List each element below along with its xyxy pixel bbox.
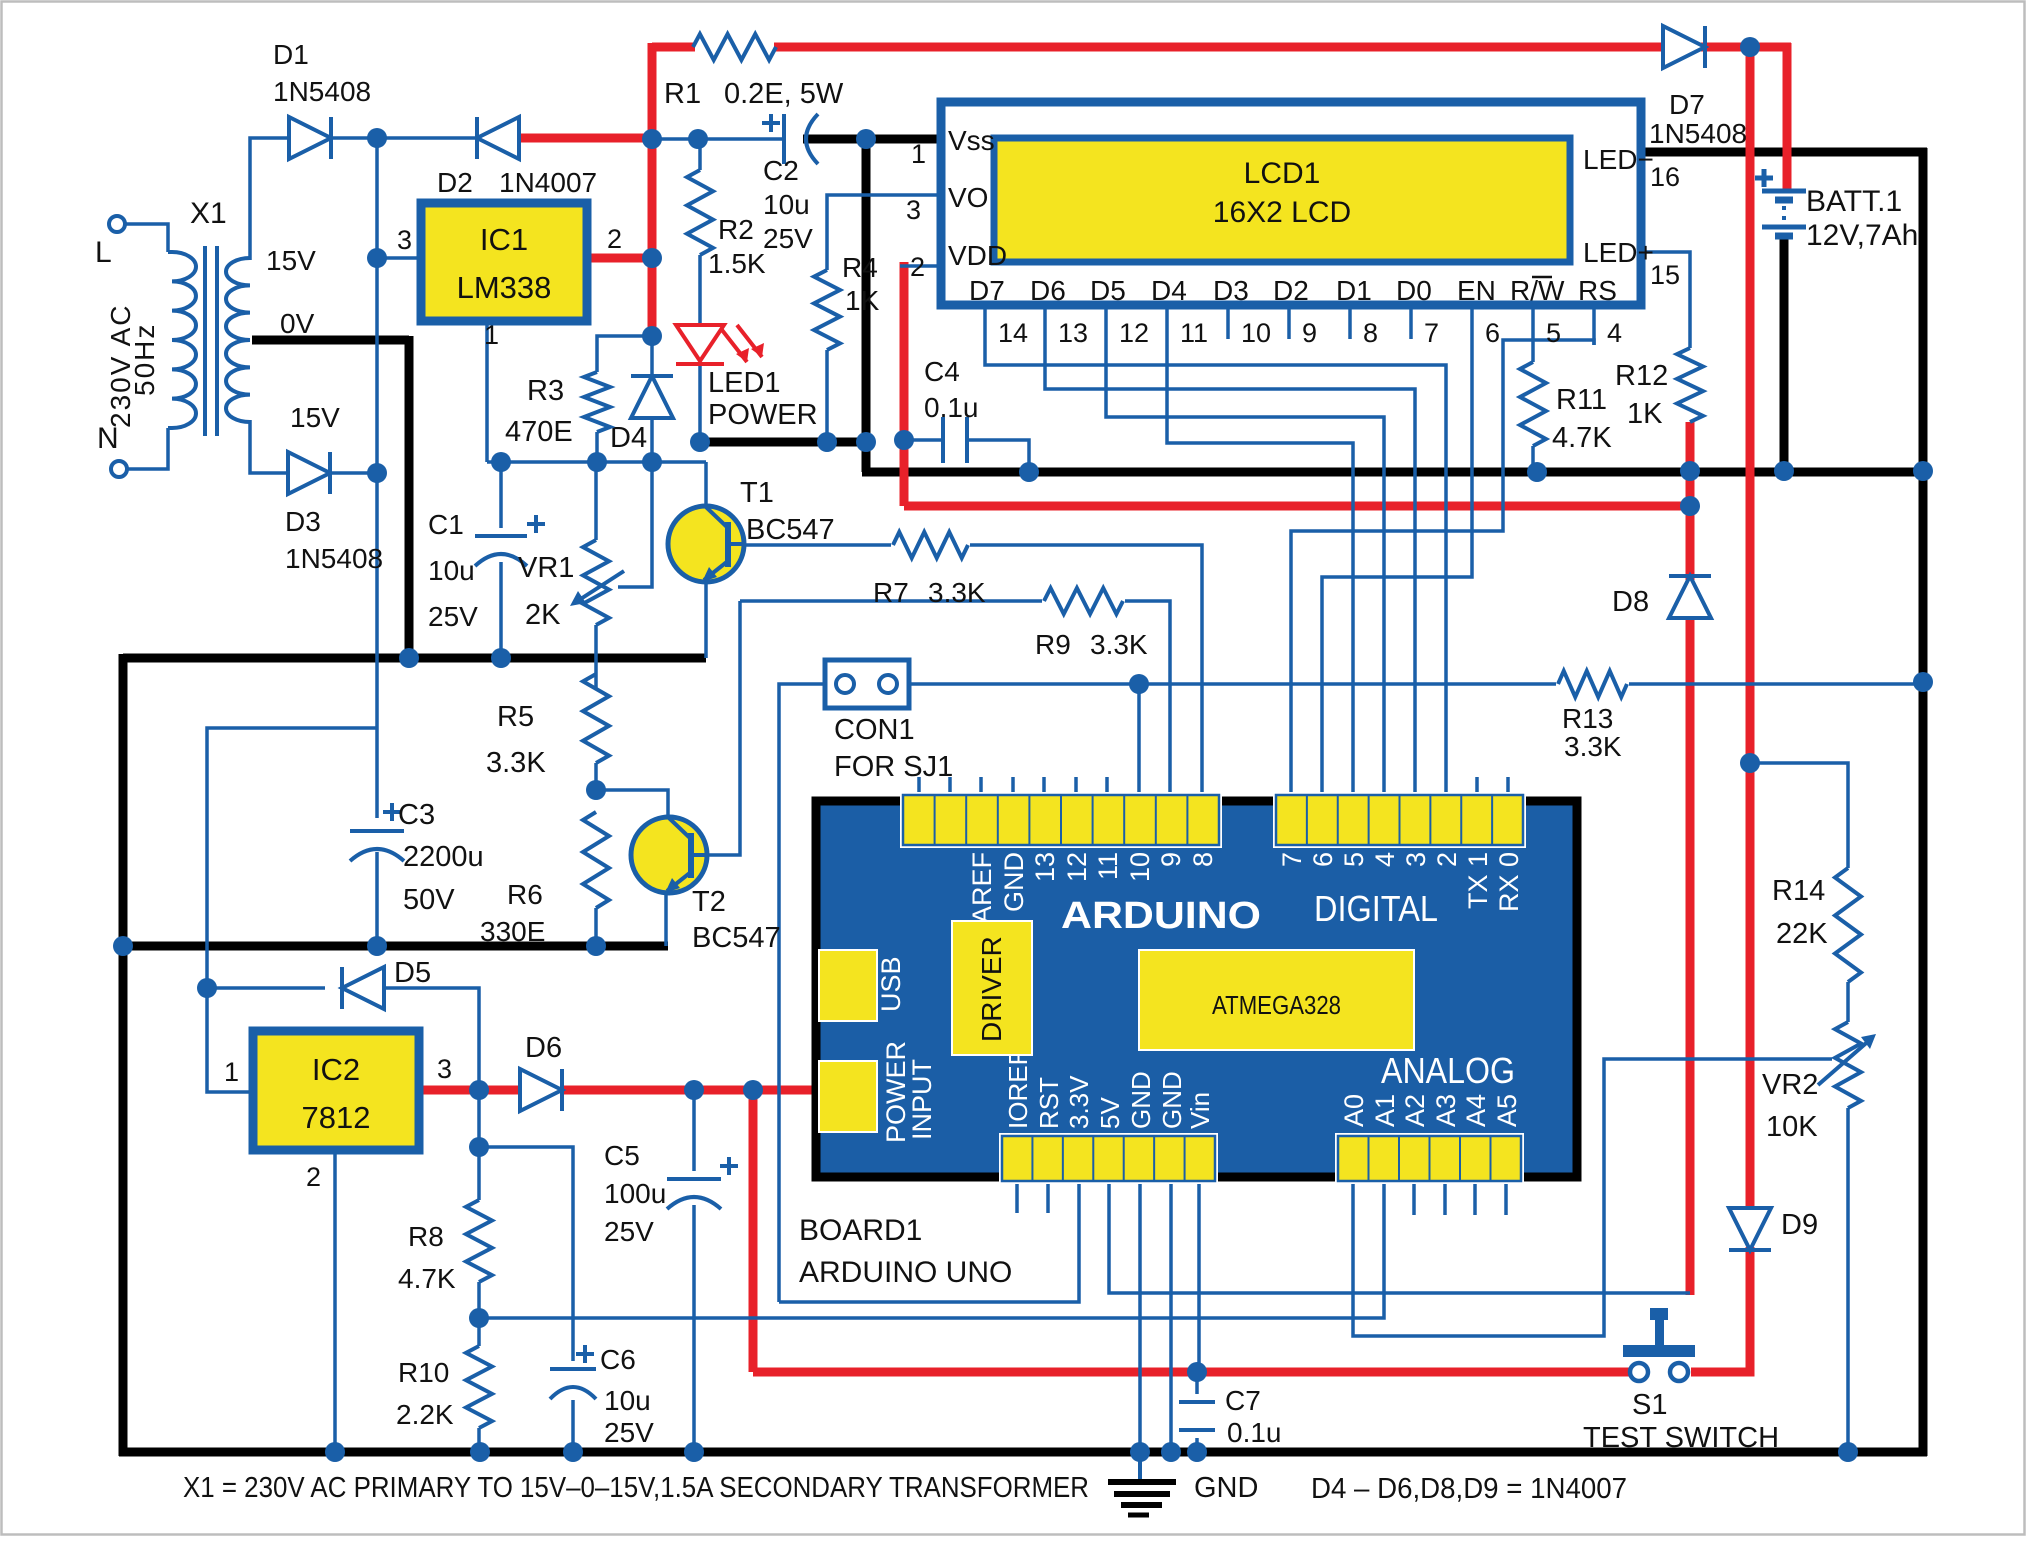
svg-text:50V: 50V xyxy=(403,884,455,916)
wire red battery charge line xyxy=(1746,43,1755,1215)
wire D3 out xyxy=(327,471,377,475)
wire red IC2 out xyxy=(423,1086,528,1095)
label T2 xyxy=(692,886,781,954)
wire R9 to pin9 xyxy=(1125,601,1170,777)
svg-text:X1: X1 xyxy=(190,197,227,230)
svg-text:25V: 25V xyxy=(604,1216,654,1247)
wire CON1 to R13 xyxy=(907,682,1556,686)
diode D9 xyxy=(1729,1208,1771,1250)
LCD1 pin numbers bottom xyxy=(998,318,1622,348)
LCD1 title xyxy=(1213,157,1351,229)
wire R14-VR2 link xyxy=(1846,982,1850,1022)
svg-text:R2: R2 xyxy=(718,214,754,245)
wire R6 bottom xyxy=(594,908,598,946)
note transformer xyxy=(183,1472,1089,1504)
LCD1 right labels xyxy=(1583,144,1654,268)
svg-text:LCD1: LCD1 xyxy=(1244,157,1321,190)
label R5 xyxy=(486,701,546,779)
svg-text:R6: R6 xyxy=(507,879,543,910)
label 15V top xyxy=(266,245,316,276)
svg-text:1: 1 xyxy=(224,1057,239,1087)
note diodes xyxy=(1311,1473,1627,1505)
svg-text:5V: 5V xyxy=(1095,1097,1125,1129)
wire DC to IC2 input xyxy=(207,728,377,1092)
wire C7 top xyxy=(1195,1372,1199,1394)
wire 0V tap black xyxy=(252,336,409,345)
label R13 xyxy=(1562,703,1622,762)
svg-text:VR2: VR2 xyxy=(1762,1069,1818,1101)
svg-text:7: 7 xyxy=(1277,852,1307,867)
svg-text:2: 2 xyxy=(1432,852,1462,867)
capacitor C5 xyxy=(667,1157,738,1209)
svg-text:IC2: IC2 xyxy=(312,1052,360,1087)
svg-text:2: 2 xyxy=(306,1162,321,1192)
label R2 xyxy=(708,214,766,279)
svg-text:7812: 7812 xyxy=(302,1100,371,1135)
wire IC1 pin1 xyxy=(485,325,489,462)
label R6 xyxy=(480,879,545,947)
label S1 xyxy=(1583,1389,1779,1454)
ground GND xyxy=(1108,1452,1258,1515)
svg-text:R3: R3 xyxy=(527,375,564,407)
label R7 xyxy=(873,577,986,608)
wire red R1 riser xyxy=(648,43,657,340)
svg-text:9: 9 xyxy=(1156,852,1186,867)
svg-text:22K: 22K xyxy=(1776,918,1828,950)
svg-text:2: 2 xyxy=(910,252,925,282)
svg-text:3.3K: 3.3K xyxy=(1090,629,1148,660)
wire D1 to D2 xyxy=(329,136,481,140)
wire red top rail left xyxy=(652,43,695,52)
transformer X1 primary coil xyxy=(168,252,196,428)
wire C4 left xyxy=(904,438,943,442)
wire R8-C6 link xyxy=(479,1147,573,1361)
svg-text:1: 1 xyxy=(911,139,926,169)
svg-text:DRIVER: DRIVER xyxy=(976,936,1007,1042)
svg-text:2K: 2K xyxy=(525,599,561,631)
wire LCD pin13 to arduino 3 xyxy=(1045,345,1415,777)
label D7 xyxy=(1649,89,1747,149)
svg-text:T2: T2 xyxy=(692,886,726,918)
svg-text:4.7K: 4.7K xyxy=(1552,422,1612,454)
wire C2 branch xyxy=(652,137,784,141)
svg-text:R11: R11 xyxy=(1556,384,1607,416)
wire black LED- top xyxy=(1641,148,1927,157)
svg-text:ARDUINO UNO: ARDUINO UNO xyxy=(799,1256,1012,1289)
label D4 xyxy=(610,422,647,454)
label R10 xyxy=(396,1357,454,1430)
wire R5R6 node to T2 collector xyxy=(596,790,668,819)
svg-text:0.1u: 0.1u xyxy=(1227,1417,1282,1448)
svg-text:BATT.1: BATT.1 xyxy=(1806,185,1902,218)
svg-text:VDD: VDD xyxy=(948,240,1007,271)
svg-text:D2: D2 xyxy=(437,167,473,198)
wire rectified DC vertical xyxy=(375,138,379,475)
switch S1 xyxy=(1623,1308,1695,1381)
svg-text:25V: 25V xyxy=(428,601,478,632)
wire black bottom rail xyxy=(119,1448,1927,1457)
wire A1 sense line xyxy=(479,1181,1384,1318)
svg-text:0.2E, 5W: 0.2E, 5W xyxy=(724,78,844,110)
svg-text:R13: R13 xyxy=(1562,703,1613,734)
resistor R6 xyxy=(583,812,609,908)
IC2 text xyxy=(302,1052,371,1135)
svg-text:3.3K: 3.3K xyxy=(928,577,986,608)
wire C5 bottom xyxy=(692,1205,696,1452)
svg-text:RX 0: RX 0 xyxy=(1494,852,1524,912)
svg-text:R5: R5 xyxy=(497,701,534,733)
transformer X1 secondary coil xyxy=(226,258,250,422)
wire R7 to pin8 xyxy=(970,545,1202,777)
label D1 xyxy=(273,39,371,107)
wire LCD pin14 to arduino 2 xyxy=(985,345,1446,777)
arduino power header stubs xyxy=(1017,1181,1506,1215)
arduino digital labels left xyxy=(967,852,1218,924)
svg-text:2200u: 2200u xyxy=(403,841,484,873)
svg-text:AREF: AREF xyxy=(967,852,997,924)
wire VR2 bottom xyxy=(1846,1108,1850,1452)
svg-text:D6: D6 xyxy=(1030,275,1066,306)
label D8 xyxy=(1612,586,1649,618)
svg-text:ARDUINO: ARDUINO xyxy=(1061,895,1261,937)
svg-text:USB: USB xyxy=(876,956,906,1012)
svg-text:LM338: LM338 xyxy=(457,270,552,305)
LED LED1 xyxy=(676,325,764,364)
wire red D7 to battery xyxy=(1701,43,1791,52)
svg-text:RS: RS xyxy=(1578,275,1617,306)
wire CON1 left riser xyxy=(779,684,825,1302)
diode D8 xyxy=(1669,576,1711,618)
resistor R7 xyxy=(893,532,968,558)
svg-text:12V,7Ah: 12V,7Ah xyxy=(1806,219,1918,252)
svg-text:POWER: POWER xyxy=(708,399,818,431)
wire LCD pin5 to R11 xyxy=(1531,345,1535,362)
resistor R8 xyxy=(466,1200,492,1282)
svg-text:C7: C7 xyxy=(1225,1385,1261,1416)
resistor R5 xyxy=(583,674,609,763)
label R9 xyxy=(1035,629,1148,660)
diode D7 xyxy=(1663,26,1705,68)
wire red D8 to 5V xyxy=(1686,614,1695,1295)
wire LCD pin12 to arduino 4 xyxy=(1106,345,1384,777)
svg-text:10K: 10K xyxy=(1766,1111,1818,1143)
wire black mid rail xyxy=(862,468,1927,477)
diode D6 xyxy=(520,1069,562,1111)
svg-text:A5: A5 xyxy=(1492,1094,1522,1127)
wire VR1 wiper xyxy=(618,463,652,587)
wire LED+ to R12 xyxy=(1645,252,1690,348)
svg-text:330E: 330E xyxy=(480,916,545,947)
svg-text:N: N xyxy=(97,422,119,455)
arduino board BOARD1 xyxy=(816,801,1577,1177)
wire T1 base to R7 xyxy=(744,543,891,547)
svg-text:R8: R8 xyxy=(408,1221,444,1252)
wire VR1-R5 link xyxy=(594,625,598,690)
arduino DRIVER xyxy=(952,921,1032,1055)
svg-text:A2: A2 xyxy=(1400,1094,1430,1127)
wire R8-R10 junction xyxy=(477,1282,481,1346)
wire GND stub 2 xyxy=(1169,1181,1173,1452)
IC1 text xyxy=(457,222,552,305)
svg-text:D5: D5 xyxy=(394,957,431,989)
svg-text:IC1: IC1 xyxy=(480,222,528,257)
svg-text:IOREF: IOREF xyxy=(1003,1050,1033,1129)
svg-text:16X2 LCD: 16X2 LCD xyxy=(1213,196,1351,229)
svg-text:13: 13 xyxy=(1030,852,1060,882)
resistor R2 xyxy=(687,170,713,255)
wire LCD pin4 RS to arduino 7 xyxy=(1291,340,1594,777)
svg-text:3.3V: 3.3V xyxy=(1064,1075,1094,1129)
wire T1 emitter xyxy=(704,580,708,658)
svg-text:1N5408: 1N5408 xyxy=(273,76,371,107)
wire D4 cathode link xyxy=(650,336,654,377)
svg-text:VO: VO xyxy=(948,182,988,213)
svg-text:GND: GND xyxy=(1194,1472,1258,1504)
svg-text:R14: R14 xyxy=(1772,875,1825,907)
wire red bottom rail xyxy=(753,1368,1631,1377)
svg-text:3: 3 xyxy=(1401,852,1431,867)
wire CON1 drop to pin10 xyxy=(1137,684,1141,777)
wire C6 bottom xyxy=(571,1400,575,1452)
wire 15V top xyxy=(250,138,292,260)
label 15V bottom xyxy=(290,402,340,433)
svg-text:D4 – D6,D8,D9 = 1N4007: D4 – D6,D8,D9 = 1N4007 xyxy=(1311,1473,1627,1505)
wire R13 right xyxy=(1629,682,1923,686)
svg-text:R1: R1 xyxy=(664,78,701,110)
svg-text:50Hz: 50Hz xyxy=(129,323,160,396)
svg-text:10u: 10u xyxy=(604,1385,651,1416)
svg-text:1N4007: 1N4007 xyxy=(499,167,597,198)
svg-text:L: L xyxy=(95,236,112,269)
wire VR2 wiper to A0 xyxy=(1353,1059,1832,1336)
svg-text:A4: A4 xyxy=(1461,1094,1491,1127)
arduino power labels xyxy=(1003,1050,1215,1129)
svg-text:3.3K: 3.3K xyxy=(1564,731,1622,762)
transistor T1 xyxy=(668,506,744,582)
label D5 xyxy=(394,957,431,989)
wire C1 bottom xyxy=(499,562,503,660)
svg-text:R9: R9 xyxy=(1035,629,1071,660)
svg-text:BOARD1: BOARD1 xyxy=(799,1214,922,1247)
wire C4 right xyxy=(967,440,1029,472)
diode D4 xyxy=(631,376,673,418)
svg-text:A0: A0 xyxy=(1339,1094,1369,1127)
svg-text:D6: D6 xyxy=(525,1032,562,1064)
wire IC1 pin3 xyxy=(377,256,417,260)
label L xyxy=(95,236,112,269)
label VR1 xyxy=(518,552,574,631)
svg-text:0.1u: 0.1u xyxy=(924,392,979,423)
svg-text:D3: D3 xyxy=(1213,275,1249,306)
arduino USB port xyxy=(819,950,906,1021)
label D3 xyxy=(285,506,383,574)
wire black LED1 bottom rail xyxy=(700,438,870,447)
resistor R13 xyxy=(1558,671,1627,697)
svg-text:12: 12 xyxy=(1119,318,1149,348)
svg-text:R10: R10 xyxy=(398,1357,449,1388)
svg-text:8: 8 xyxy=(1188,852,1218,867)
svg-text:11: 11 xyxy=(1093,852,1123,880)
label N xyxy=(97,422,119,455)
svg-text:2.2K: 2.2K xyxy=(396,1399,454,1430)
arduino ANALOG xyxy=(1381,1050,1515,1091)
svg-text:D5: D5 xyxy=(1090,275,1126,306)
svg-text:10: 10 xyxy=(1241,318,1271,348)
svg-text:12: 12 xyxy=(1062,852,1092,882)
wire D5 left xyxy=(207,986,325,990)
resistor R3 xyxy=(584,372,610,432)
arduino ATMEGA328 xyxy=(1139,950,1414,1050)
svg-text:T1: T1 xyxy=(740,477,774,509)
svg-text:R4: R4 xyxy=(842,252,878,283)
svg-text:1N5408: 1N5408 xyxy=(285,543,383,574)
svg-text:D2: D2 xyxy=(1273,275,1309,306)
wire coil to N xyxy=(126,428,168,469)
wire red R12 to D8 xyxy=(1686,422,1695,580)
wire R3 bottom xyxy=(595,432,599,462)
svg-text:D1: D1 xyxy=(1336,275,1372,306)
arduino power header xyxy=(999,1133,1218,1184)
LCD1 right pin numbers xyxy=(1650,162,1680,290)
diode D5 xyxy=(342,967,384,1009)
wire D4 anode xyxy=(650,417,654,462)
svg-text:470E: 470E xyxy=(505,416,573,448)
svg-text:A1: A1 xyxy=(1370,1094,1400,1127)
wire R11 bottom xyxy=(1531,446,1535,472)
resistor R10 xyxy=(466,1346,492,1428)
svg-text:25V: 25V xyxy=(604,1417,654,1448)
svg-text:1.5K: 1.5K xyxy=(708,248,766,279)
resistor R9 xyxy=(1044,588,1123,614)
capacitor C4 xyxy=(943,417,967,463)
wire C3 bottom xyxy=(375,852,379,946)
svg-text:D3: D3 xyxy=(285,506,321,537)
capacitor C1 xyxy=(475,515,545,566)
svg-text:100u: 100u xyxy=(604,1178,666,1209)
label D2 xyxy=(437,167,597,198)
wire D5 right xyxy=(363,988,479,1090)
wire red D6 out xyxy=(560,1086,819,1095)
svg-text:LED−: LED− xyxy=(1583,144,1654,175)
svg-text:C5: C5 xyxy=(604,1140,640,1171)
LCD1 data pin labels xyxy=(969,275,1617,306)
label C7 xyxy=(1225,1385,1282,1448)
svg-text:4: 4 xyxy=(1607,318,1622,348)
wire black C2 to LCD Vss xyxy=(803,135,937,144)
wire R8 top xyxy=(477,1090,481,1200)
wire C7 bottom xyxy=(1195,1438,1199,1452)
svg-text:4: 4 xyxy=(1370,852,1400,867)
svg-text:D4: D4 xyxy=(1151,275,1187,306)
wire VO to R4 xyxy=(827,195,937,270)
label LED1 xyxy=(708,367,818,431)
svg-text:25V: 25V xyxy=(763,223,813,254)
wire 0V rail horizontal xyxy=(123,654,706,663)
svg-text:3: 3 xyxy=(906,195,921,225)
svg-text:2: 2 xyxy=(607,224,622,254)
transformer X1 label xyxy=(190,197,227,230)
wire C5 top xyxy=(692,1090,696,1171)
wire black Vss down xyxy=(862,139,871,472)
svg-text:C1: C1 xyxy=(428,509,464,540)
svg-text:TEST SWITCH: TEST SWITCH xyxy=(1583,1422,1779,1454)
svg-text:10: 10 xyxy=(1125,852,1155,882)
svg-text:15V: 15V xyxy=(266,245,316,276)
svg-text:Vss: Vss xyxy=(948,125,995,156)
wire R3 top link xyxy=(597,336,652,372)
svg-text:GND: GND xyxy=(999,852,1029,912)
label C3 xyxy=(398,799,484,916)
wire left black vertical xyxy=(119,654,128,1456)
svg-text:16: 16 xyxy=(1650,162,1680,192)
svg-text:10u: 10u xyxy=(763,189,810,220)
svg-text:S1: S1 xyxy=(1632,1389,1667,1421)
label VR2 xyxy=(1762,1069,1818,1143)
arduino POWER INPUT xyxy=(819,1041,937,1143)
label D9 xyxy=(1781,1209,1818,1241)
label BOARD1 xyxy=(799,1214,1012,1289)
IC1 LM338 box xyxy=(421,203,587,321)
wire red D9 to S1 xyxy=(1691,1247,1750,1372)
wire T2 emitter xyxy=(664,891,668,946)
resistor R11 xyxy=(1520,362,1546,446)
svg-text:A3: A3 xyxy=(1431,1094,1461,1127)
svg-text:CON1: CON1 xyxy=(834,714,915,746)
transformer X1 primary terminal L xyxy=(109,216,125,232)
IC2 7812 box xyxy=(253,1031,419,1150)
svg-text:15: 15 xyxy=(1650,260,1680,290)
wire L to coil xyxy=(124,224,168,252)
diode D3 xyxy=(288,452,330,494)
label C2 xyxy=(763,155,813,254)
svg-text:8: 8 xyxy=(1363,318,1378,348)
wire red top rail xyxy=(774,43,1670,52)
capacitor C2 xyxy=(762,114,818,164)
resistor R14 xyxy=(1835,868,1861,982)
wire 0V vertical xyxy=(405,336,414,658)
svg-text:11: 11 xyxy=(1180,318,1208,348)
svg-text:GND: GND xyxy=(1157,1071,1187,1129)
svg-text:0V: 0V xyxy=(280,308,315,339)
svg-text:D8: D8 xyxy=(1612,586,1649,618)
label C1 xyxy=(428,509,478,632)
svg-text:D9: D9 xyxy=(1781,1209,1818,1241)
svg-text:D1: D1 xyxy=(273,39,309,70)
svg-text:C4: C4 xyxy=(924,356,960,387)
transistor T2 xyxy=(631,817,707,893)
wire R2 to LED1 xyxy=(698,255,702,325)
wire 5V line xyxy=(1109,1181,1690,1293)
arduino title xyxy=(1061,895,1261,937)
wire red Vin drop xyxy=(749,1090,758,1372)
svg-text:R/W: R/W xyxy=(1510,275,1565,306)
wire R5 bottom xyxy=(594,763,598,790)
wire red VDD rail xyxy=(904,502,1690,511)
svg-text:3.3K: 3.3K xyxy=(486,747,546,779)
svg-text:3: 3 xyxy=(397,225,412,255)
svg-text:14: 14 xyxy=(998,318,1028,348)
arduino digital header right xyxy=(1273,792,1526,848)
label 0V xyxy=(280,308,315,339)
svg-text:D7: D7 xyxy=(969,275,1005,306)
LCD1 box xyxy=(941,102,1641,305)
wire C3 top xyxy=(375,475,379,818)
arduino digital labels right xyxy=(1277,852,1524,912)
resistor R12 xyxy=(1677,348,1703,422)
wire 3.3V line xyxy=(779,1181,1079,1302)
wire R2 top xyxy=(698,139,702,170)
svg-text:ATMEGA328: ATMEGA328 xyxy=(1212,990,1341,1020)
